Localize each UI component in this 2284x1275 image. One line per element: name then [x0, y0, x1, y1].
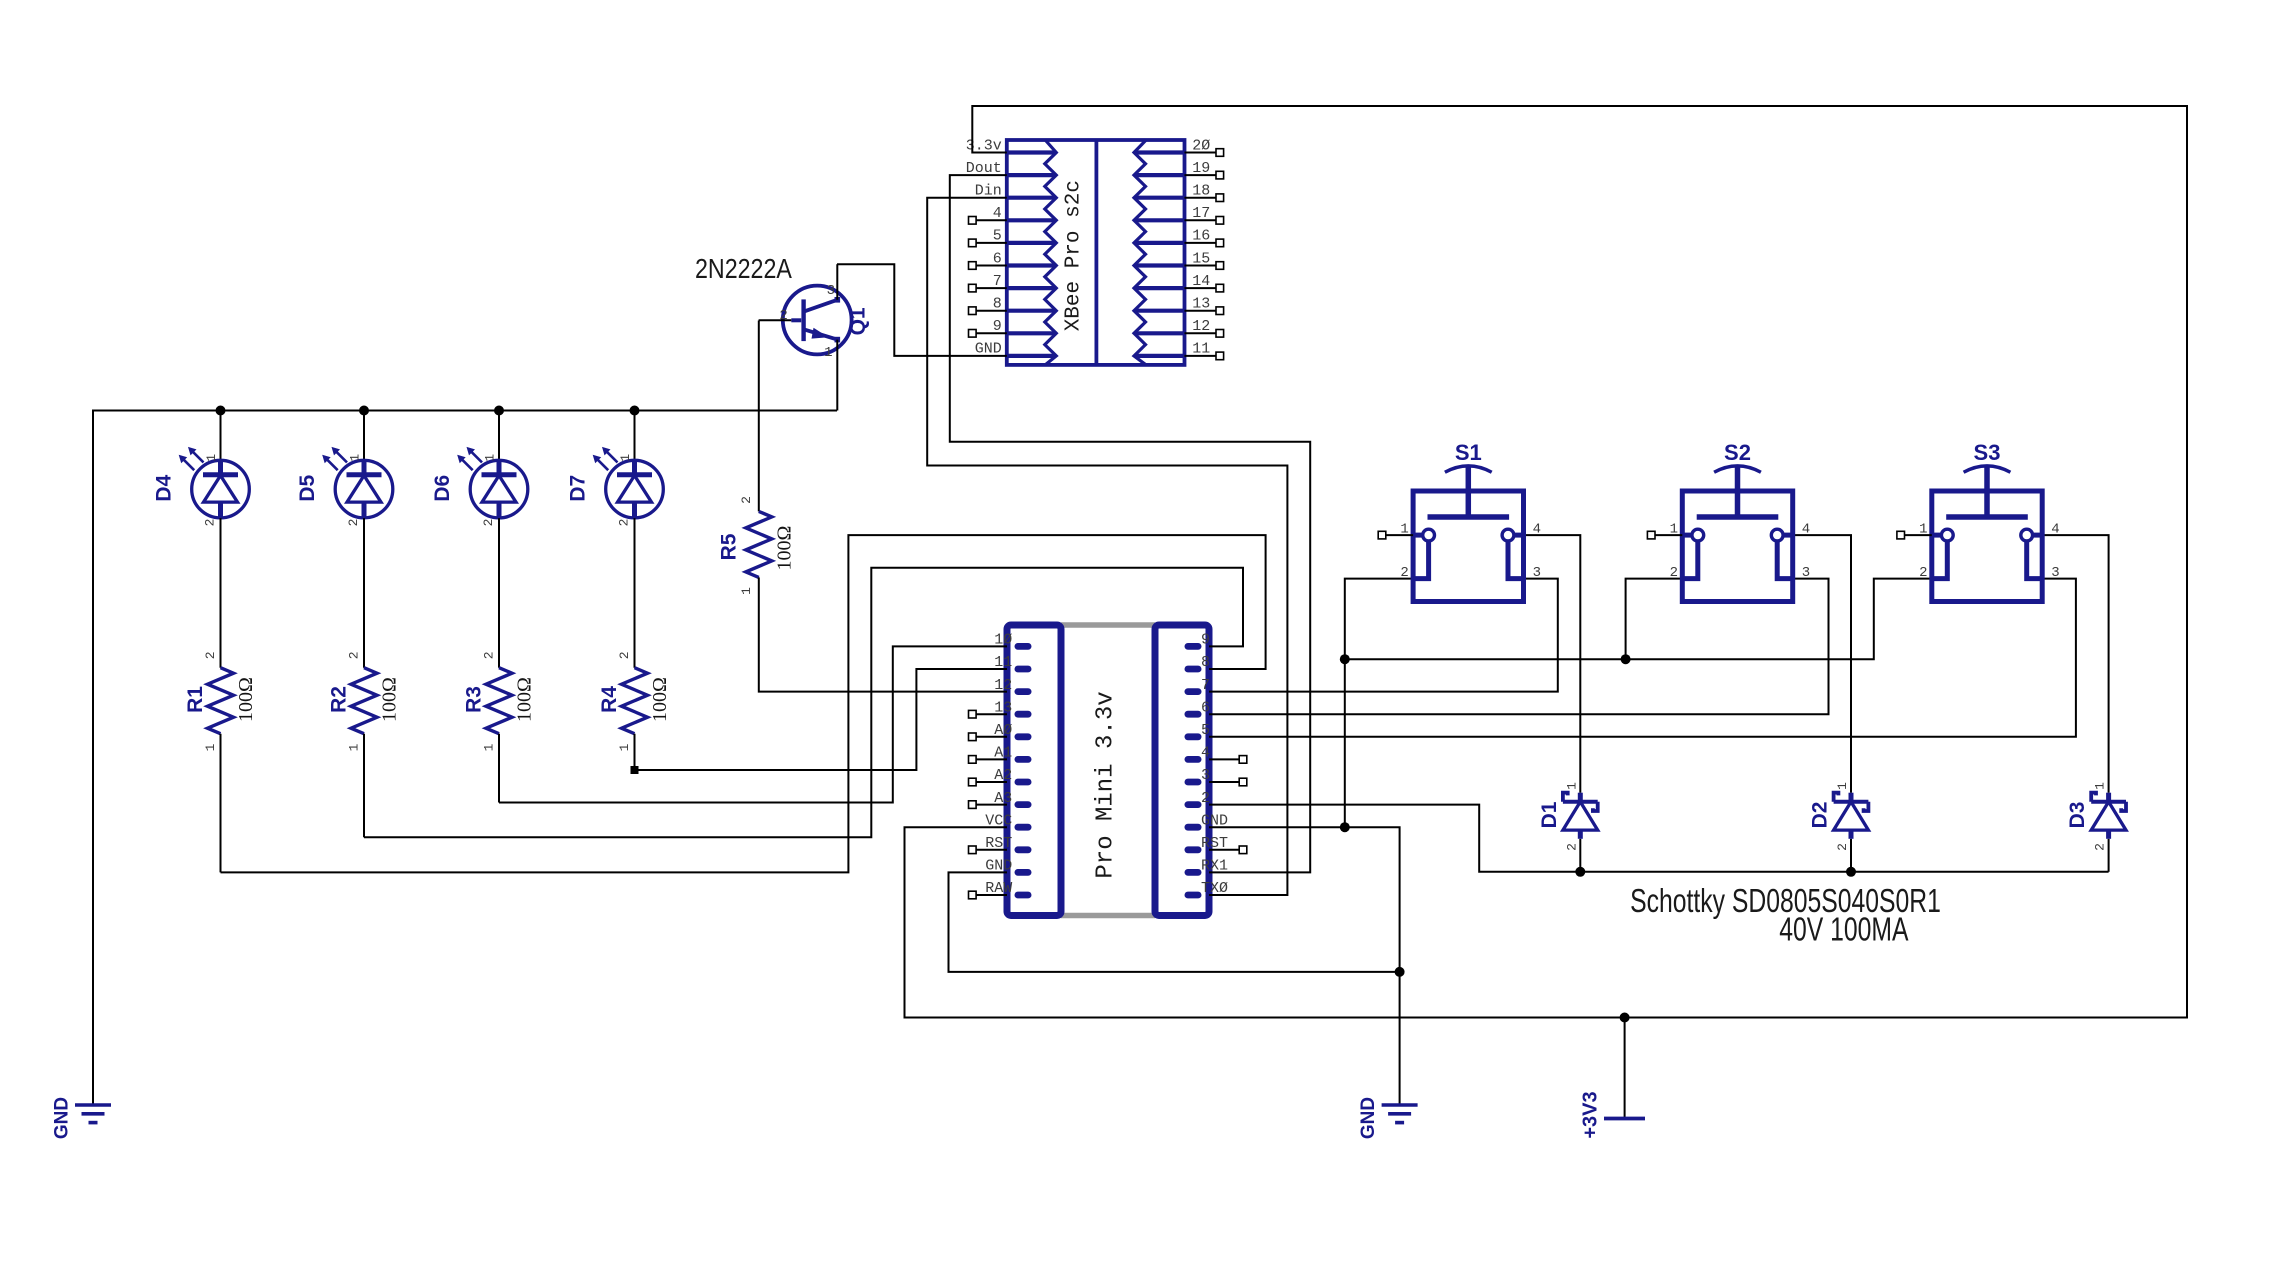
svg-text:R4: R4	[598, 686, 621, 713]
svg-text:2: 2	[739, 496, 754, 504]
svg-text:S2: S2	[1724, 440, 1751, 465]
svg-text:XBee Pro s2c: XBee Pro s2c	[1063, 180, 1086, 331]
svg-text:1: 1	[1835, 782, 1850, 790]
svg-text:100Ω: 100Ω	[774, 526, 796, 571]
svg-text:3: 3	[1533, 565, 1541, 581]
svg-text:3: 3	[1201, 767, 1210, 784]
svg-text:D1: D1	[1538, 801, 1561, 828]
svg-text:D3: D3	[2066, 802, 2089, 829]
svg-text:1: 1	[1670, 521, 1678, 537]
svg-text:3: 3	[2051, 565, 2059, 581]
svg-text:+3V3: +3V3	[1580, 1091, 1602, 1138]
svg-text:7: 7	[1201, 677, 1210, 694]
svg-text:100Ω: 100Ω	[235, 677, 257, 722]
svg-text:GND: GND	[1358, 1097, 1379, 1139]
svg-text:R3: R3	[463, 686, 486, 713]
svg-text:2: 2	[1919, 565, 1927, 581]
svg-text:2: 2	[1670, 565, 1678, 581]
svg-text:1: 1	[618, 454, 633, 462]
svg-text:5: 5	[1201, 722, 1210, 739]
svg-text:1: 1	[1400, 521, 1408, 537]
svg-text:1: 1	[203, 743, 218, 751]
svg-text:2: 2	[2093, 843, 2108, 851]
svg-text:1: 1	[617, 743, 632, 751]
svg-text:1: 1	[482, 743, 497, 751]
svg-text:2: 2	[1201, 790, 1210, 807]
svg-text:2: 2	[203, 651, 218, 659]
svg-text:4: 4	[2051, 521, 2059, 537]
svg-text:2: 2	[1835, 843, 1850, 851]
svg-text:3: 3	[1802, 565, 1810, 581]
svg-text:S1: S1	[1455, 440, 1482, 465]
svg-text:D2: D2	[1809, 802, 1832, 829]
svg-text:4: 4	[1533, 521, 1541, 537]
svg-text:D4: D4	[153, 474, 176, 501]
svg-text:2: 2	[779, 308, 787, 324]
svg-text:2: 2	[347, 651, 362, 659]
svg-text:1: 1	[482, 454, 497, 462]
svg-text:D6: D6	[431, 475, 454, 502]
svg-text:Q1: Q1	[847, 307, 870, 335]
svg-text:2: 2	[481, 519, 496, 527]
svg-text:1: 1	[824, 345, 832, 361]
svg-text:1: 1	[2093, 782, 2108, 790]
svg-text:1: 1	[347, 743, 362, 751]
svg-text:40V 100MA: 40V 100MA	[1779, 912, 1909, 948]
svg-text:3: 3	[827, 283, 835, 299]
svg-text:4: 4	[1802, 521, 1810, 537]
svg-text:R1: R1	[184, 686, 207, 713]
svg-text:6: 6	[1201, 699, 1210, 716]
svg-text:GND: GND	[52, 1097, 73, 1139]
svg-text:2: 2	[1564, 843, 1579, 851]
svg-text:100Ω: 100Ω	[649, 677, 671, 722]
svg-text:R5: R5	[718, 533, 741, 560]
svg-text:D7: D7	[567, 475, 590, 502]
svg-text:1: 1	[347, 454, 362, 462]
svg-text:8: 8	[1201, 654, 1210, 671]
svg-text:2: 2	[482, 651, 497, 659]
svg-text:2N2222A: 2N2222A	[695, 254, 793, 284]
svg-text:2: 2	[617, 651, 632, 659]
svg-text:2: 2	[346, 519, 361, 527]
svg-text:2: 2	[1400, 565, 1408, 581]
svg-text:1: 1	[1919, 521, 1927, 537]
svg-text:D5: D5	[296, 474, 319, 501]
svg-text:2: 2	[617, 519, 632, 527]
svg-text:9: 9	[1201, 632, 1210, 649]
svg-text:R2: R2	[328, 686, 351, 713]
svg-text:4: 4	[1201, 745, 1210, 762]
svg-text:2: 2	[203, 519, 218, 527]
svg-text:1: 1	[739, 587, 754, 595]
svg-text:Pro Mini 3.3v: Pro Mini 3.3v	[1093, 691, 1120, 878]
svg-text:100Ω: 100Ω	[514, 677, 536, 722]
svg-text:1: 1	[1564, 782, 1579, 790]
svg-text:S3: S3	[1974, 440, 2001, 465]
svg-text:1: 1	[204, 454, 219, 462]
svg-text:100Ω: 100Ω	[379, 677, 401, 722]
